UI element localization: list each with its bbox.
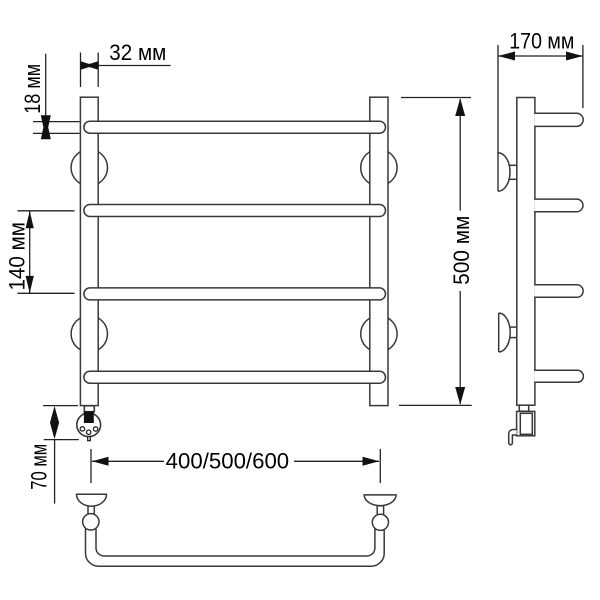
170mm dim line [498, 55, 583, 57]
140mm arrow up [26, 211, 34, 228]
right post [370, 97, 388, 405]
svg-text:500 мм: 500 мм [449, 216, 474, 285]
18mm ext lines [33, 121, 80, 123]
svg-text:400/500/600: 400/500/600 [166, 449, 290, 474]
left ball [83, 514, 99, 530]
left neck [88, 506, 94, 515]
svg-text:70 мм: 70 мм [26, 444, 51, 490]
mount upper-right [361, 149, 397, 185]
left post [80, 97, 98, 405]
bar 2 [84, 205, 386, 217]
400 arrow left [92, 457, 109, 466]
svg-text:32 мм: 32 мм [109, 40, 166, 65]
500mm ext lines [401, 97, 471, 99]
right dome [364, 495, 396, 506]
bar 4 [84, 371, 386, 383]
400 dim lines [92, 460, 164, 462]
500mm arrow up [455, 98, 465, 116]
left dome [77, 494, 107, 506]
side stub 3 [534, 285, 583, 298]
side post [517, 98, 535, 406]
mount lower-right [361, 316, 397, 352]
side stub 2 [534, 199, 583, 212]
70mm tail line [54, 440, 56, 504]
mount upper-left [71, 149, 107, 185]
upper dome [498, 153, 510, 192]
svg-text:18 мм: 18 мм [20, 64, 45, 114]
svg-text:140 мм: 140 мм [5, 222, 30, 291]
170mm arrow left [498, 52, 515, 61]
bar 3 [84, 288, 386, 300]
170mm ext lines [497, 45, 499, 191]
side heater [519, 405, 528, 411]
140mm arrow down [26, 276, 34, 293]
170mm arrow right [566, 52, 583, 61]
140mm dim line [29, 211, 31, 293]
70mm ext lines [43, 405, 78, 407]
heating element on left post (front view) [77, 406, 101, 437]
lower dome [499, 313, 511, 352]
bottom tube [86, 527, 385, 566]
right neck [377, 506, 383, 515]
70mm diamond [50, 406, 59, 439]
32mm leader [98, 65, 170, 67]
side stub 4 [534, 370, 583, 382]
18mm leader [45, 54, 47, 116]
140mm ext lines [18, 210, 75, 212]
right ball [372, 514, 388, 530]
400 ticks [90, 449, 92, 483]
arrows [26, 52, 583, 466]
svg-text:170 мм: 170 мм [509, 29, 574, 54]
32mm bowtie [81, 61, 99, 69]
side stub 1 [534, 113, 583, 126]
400 arrow right [363, 457, 380, 466]
500mm dim line [459, 99, 461, 211]
500mm arrow down [455, 387, 465, 405]
32mm ticks [80, 53, 82, 88]
cable hook [509, 430, 517, 445]
18mm bowtie [41, 115, 51, 139]
bar 1 [84, 121, 386, 133]
mount lower-left [71, 316, 107, 352]
